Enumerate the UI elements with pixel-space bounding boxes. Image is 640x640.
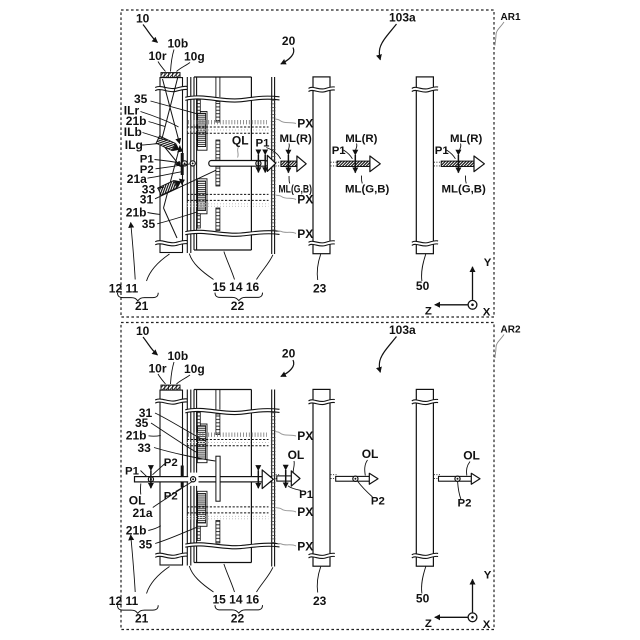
svg-text:ML(R): ML(R): [450, 133, 482, 145]
svg-text:ML(R): ML(R): [280, 133, 312, 145]
leader ILr: [141, 112, 179, 128]
double arrow in guide: [150, 470, 152, 488]
svg-text:P2: P2: [458, 498, 472, 510]
polarization dot P2: [190, 161, 195, 166]
light beam OL: [135, 477, 272, 482]
svg-text:ML(G,B): ML(G,B): [442, 183, 486, 195]
ML arrow cluster 2: [332, 133, 390, 195]
leader P2 second: [176, 482, 192, 492]
polarization dot P1: [182, 161, 187, 166]
leader ILg: [142, 144, 159, 146]
svg-text:33: 33: [138, 441, 152, 455]
leader 35 bottom: [157, 212, 197, 224]
svg-text:P2: P2: [371, 496, 385, 508]
svg-text:21a: 21a: [133, 506, 153, 520]
leader 21b lower: [148, 526, 161, 531]
svg-text:ILg: ILg: [125, 138, 143, 152]
leader 31: [155, 413, 206, 441]
svg-text:P1: P1: [125, 466, 140, 478]
svg-text:AR2: AR2: [501, 325, 521, 336]
svg-text:ML(G,B): ML(G,B): [279, 183, 313, 195]
leader 21b lower: [148, 213, 161, 215]
arrowhead QL: [267, 155, 275, 171]
leader OL left: [139, 484, 141, 495]
ray reflected: [161, 143, 181, 167]
svg-text:OL: OL: [362, 447, 379, 461]
hatched ray 33: [158, 176, 187, 196]
leader QL: [238, 147, 239, 158]
svg-text:P2: P2: [164, 457, 178, 469]
leader ILb: [143, 133, 168, 141]
double arrow at 265: [264, 155, 266, 173]
svg-text:QL: QL: [232, 134, 249, 148]
leader 35 top: [151, 101, 198, 114]
leader P1 beam: [266, 148, 280, 159]
leader 35 upper: [151, 423, 197, 453]
leader P1 left: [155, 160, 182, 164]
svg-text:OL: OL: [463, 449, 480, 463]
svg-text:P1: P1: [299, 489, 314, 501]
leader 21b upper: [149, 434, 161, 437]
OL cluster at 23: [336, 447, 385, 507]
ray ILb: [161, 77, 178, 143]
leader 21b upper: [149, 122, 166, 127]
electrode plate 33: [216, 456, 220, 501]
svg-text:35: 35: [142, 217, 156, 231]
leader 21a: [153, 489, 182, 508]
leader P1: [141, 471, 147, 477]
svg-text:31: 31: [140, 193, 154, 207]
leader 35 lower: [155, 527, 197, 543]
polarization dot at glass: [188, 473, 198, 486]
svg-text:21b: 21b: [126, 524, 147, 538]
polarization dot on beam: [256, 161, 261, 166]
electrode ladder segment mid2: [216, 166, 220, 186]
polarization dot in guide: [148, 477, 153, 482]
electrode ladder segment mid1: [216, 140, 220, 160]
svg-text:ML(G,B): ML(G,B): [345, 183, 389, 195]
leader 33: [157, 187, 164, 189]
arrowhead OL: [262, 470, 273, 489]
svg-text:AR1: AR1: [501, 12, 521, 23]
OL cluster at line 20: [277, 448, 314, 501]
svg-text:OL: OL: [288, 448, 305, 462]
leader P2 first: [153, 464, 166, 475]
leader 33: [154, 448, 215, 462]
ray lower reflected: [164, 208, 178, 238]
leader 21a: [148, 172, 182, 178]
ray downward: [164, 146, 181, 209]
svg-text:ML(R): ML(R): [345, 133, 377, 145]
OL cluster at 50: [439, 449, 481, 510]
double arrow at 258: [257, 155, 259, 173]
svg-text:35: 35: [139, 537, 153, 551]
leader 31: [155, 170, 216, 199]
light beam QL: [209, 161, 268, 167]
ML arrow cluster 1: [279, 133, 313, 195]
ray ILr: [163, 79, 180, 144]
leader P2 left: [156, 164, 190, 169]
ML arrow cluster 3: [435, 133, 486, 195]
hatched ray ILg: [156, 136, 185, 156]
svg-text:P1: P1: [256, 137, 271, 149]
double arrow before head: [257, 470, 259, 488]
